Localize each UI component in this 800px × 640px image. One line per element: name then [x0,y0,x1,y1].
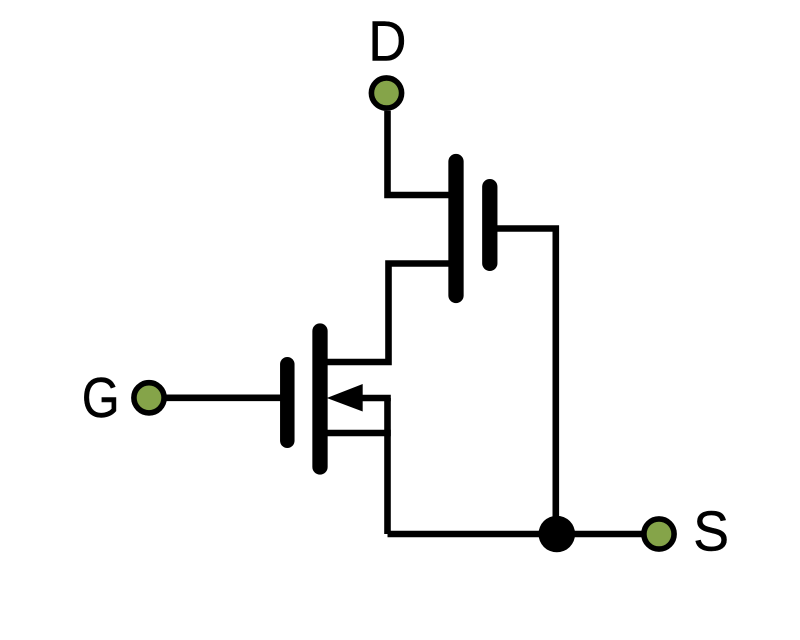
transistor Q2 body arrow [327,384,363,412]
wire Q1 source down to Q2 drain [324,264,452,363]
svg-text:G: G [82,366,120,430]
wire bottom rail to S [388,531,643,538]
wire Q2 body/source down to bottom rail [384,398,391,534]
svg-text:D: D [368,8,406,72]
transistor Q1 channel bar [448,162,463,296]
terminal G [134,383,164,413]
wire Q2 source lead [324,430,391,437]
terminal D [371,78,401,108]
terminal S [644,519,674,549]
wire Q1 gate to junction (right vertical) [497,229,556,535]
svg-text:S: S [693,499,729,563]
transistor Q2 gate bar [280,364,295,441]
transistor Q1 gate bar [482,187,497,264]
wire G lead to Q2 gate [166,394,284,401]
node junction dot [539,516,576,553]
wire Q2 body lead [350,395,391,402]
wire drain lead from D down to Q1 drain [388,111,453,195]
transistor Q2 channel bar [312,331,327,467]
